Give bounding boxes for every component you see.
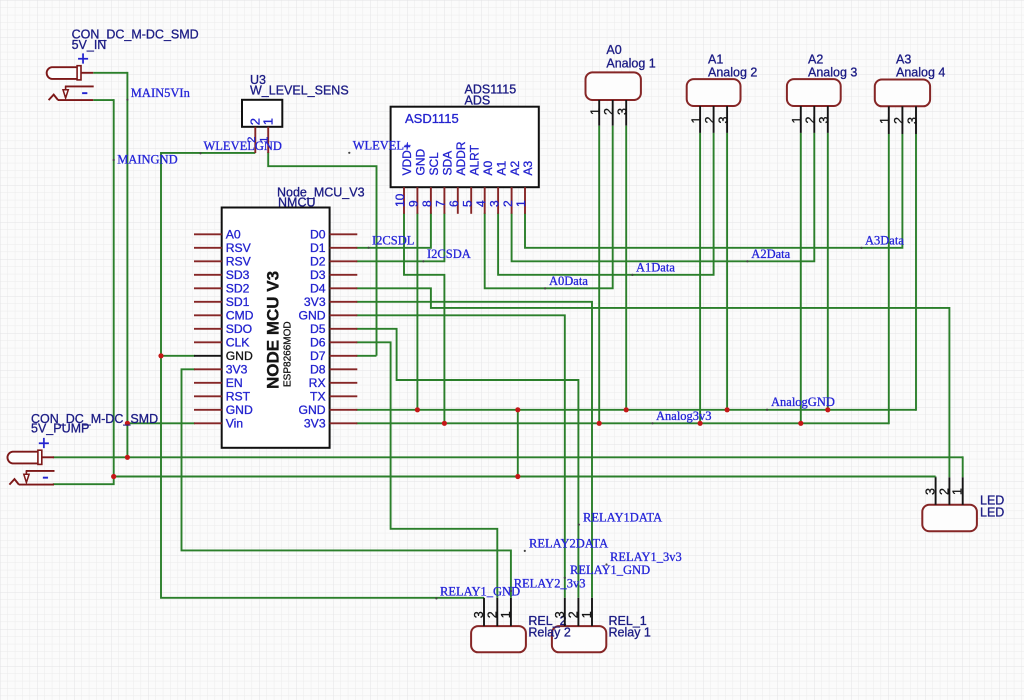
connector LED pin 1 stub (962, 477, 964, 505)
NodeMCU left pin stub GND row14 (194, 409, 222, 411)
svg-text:RSV: RSV (226, 254, 252, 268)
NodeMCU right pin stub D4 row5 (330, 287, 358, 289)
wire AnalogGND to MAINGND link (517, 410, 519, 477)
svg-text:2: 2 (486, 611, 500, 618)
svg-text:A3Data: A3Data (865, 233, 904, 247)
connector J2 5V_PUMP switch arm (26, 470, 55, 472)
net label MAIN5VIn (126, 99, 128, 101)
net label RELAY2DATA (524, 550, 526, 552)
svg-text:RELAY1_GND: RELAY1_GND (570, 563, 650, 577)
svg-text:-: - (81, 82, 88, 104)
wire MAIN5VIn horizontal from 5V_IN + pin (93, 72, 127, 74)
connector LED pin 2 stub (948, 477, 950, 505)
svg-text:SDA: SDA (441, 151, 455, 176)
svg-text:D2: D2 (310, 254, 326, 268)
connector LED pin 3 stub (935, 477, 937, 505)
connector REL_1 pin 3 stub (564, 598, 566, 626)
NodeMCU left pin stub RST row13 (194, 395, 222, 397)
svg-text:D3: D3 (310, 268, 326, 282)
svg-text:MAINGND: MAINGND (117, 153, 177, 167)
wire MAIN5VIn vertical (126, 72, 128, 457)
wire NodeMCU 3V3 to relay1 pin1 RELAY1_3v3 (356, 302, 592, 598)
connector A1 body (687, 79, 741, 106)
svg-text:2: 2 (567, 611, 581, 618)
connector J1 5V_IN barrel (47, 67, 77, 79)
wire MAINGND horizontal from 5V_IN - pin (93, 99, 114, 101)
svg-text:RELAY2DATA: RELAY2DATA (529, 537, 608, 551)
svg-text:GND: GND (299, 403, 326, 417)
wire D7 pin to WLEVEL+ vertical (356, 355, 376, 357)
svg-text:RELAY2_3v3: RELAY2_3v3 (514, 577, 586, 591)
svg-text:1: 1 (499, 611, 513, 618)
svg-text:3: 3 (905, 117, 919, 124)
connector J2 5V_PUMP barrel (7, 452, 37, 464)
connector A1 pin 2 stub (713, 106, 715, 133)
svg-text:I2CSDL: I2CSDL (372, 233, 414, 247)
svg-text:Analog 4: Analog 4 (896, 66, 945, 80)
wire D5 to relay1 pin2 RELAY1DATA (356, 329, 578, 598)
junction GND link top (515, 407, 520, 412)
net label AnalogGND (766, 409, 768, 411)
svg-text:A2Data: A2Data (751, 247, 790, 261)
svg-text:D6: D6 (310, 335, 326, 349)
svg-text:2: 2 (501, 200, 515, 207)
component NMCU Node_MCU_V3 body (222, 208, 330, 448)
net label RELAY1_GND right (564, 577, 566, 579)
svg-text:TX: TX (310, 389, 326, 403)
wire NodeMCU GND pin to WLEVELGND vertical (161, 355, 195, 357)
svg-text:6: 6 (447, 200, 461, 207)
wire 5V_PUMP minus to GND row (53, 477, 114, 485)
svg-text:GND: GND (299, 308, 326, 322)
component ADS1115 body (391, 107, 539, 188)
connector REL_2 body (471, 626, 526, 652)
wire I2CSDL D1 to ADS SCL (356, 213, 431, 248)
NodeMCU left pin stub RSV row3 (194, 260, 222, 262)
svg-text:9: 9 (407, 200, 421, 207)
net label A3Data (860, 247, 862, 249)
svg-text:Relay 1: Relay 1 (609, 626, 651, 640)
svg-text:2: 2 (804, 117, 818, 124)
NodeMCU right pin stub D2 row3 (330, 260, 358, 262)
connector A2 pin 3 stub (827, 106, 829, 133)
wire AnalogGND rise to A3 pin3 (915, 134, 917, 411)
connector J2 5V_PUMP minus pin (19, 484, 54, 486)
svg-text:AnalogGND: AnalogGND (771, 395, 835, 409)
NodeMCU right pin stub GND row7 (330, 314, 358, 316)
svg-text:Vin: Vin (226, 416, 243, 430)
junction A1 GND (725, 407, 730, 412)
NodeMCU right pin stub 3V3 row6 (330, 301, 358, 303)
svg-text:3V3: 3V3 (226, 362, 248, 376)
svg-text:Analog 3: Analog 3 (808, 66, 857, 80)
wire GND row end at LED pin3 (935, 476, 937, 479)
junction A2 GND (825, 407, 830, 412)
net label RELAY1_3v3 (605, 563, 607, 565)
wire A3Data ADS A3 to conn A3 pin2 (525, 134, 902, 248)
svg-text:SD1: SD1 (226, 295, 250, 309)
net label I2CSDA (422, 260, 424, 262)
ADS pin stub 1 (A3) (524, 187, 526, 214)
junction ADS GND / AnalogGND row (415, 407, 420, 412)
NodeMCU right pin stub RX row12 (330, 382, 358, 384)
svg-text:7: 7 (434, 200, 448, 207)
svg-text:8: 8 (420, 200, 434, 207)
connector J1 5V_IN tip bar (77, 66, 81, 80)
svg-text:1: 1 (690, 117, 704, 124)
wire I2CSDA D2 to ADS SDA (356, 213, 444, 261)
component U3 W_LEVEL_SENS body (242, 100, 282, 127)
svg-text:-: - (42, 466, 49, 488)
svg-text:D8: D8 (310, 362, 326, 376)
junction NodeMCU GND pin / WLEVELGND (158, 353, 163, 358)
svg-text:Relay 2: Relay 2 (528, 626, 570, 640)
junction A0 GND (624, 407, 629, 412)
connector REL_2 pin 2 stub (496, 598, 498, 626)
svg-text:I2CSDA: I2CSDA (427, 247, 471, 261)
svg-text:D4: D4 (310, 281, 326, 295)
svg-text:ASD1115: ASD1115 (405, 111, 459, 126)
svg-text:W_LEVEL_SENS: W_LEVEL_SENS (250, 84, 349, 98)
svg-text:Analog 1: Analog 1 (606, 56, 655, 70)
svg-text:A3: A3 (896, 52, 911, 66)
wire MAINGND vertical (113, 99, 115, 476)
connector LED body (922, 505, 977, 531)
ADS pin stub 10 (VDD+) (403, 187, 405, 214)
wire ADS VDD+ pin10 to Analog3v3 row (404, 213, 444, 423)
wire A1 pin3 to AnalogGND row (726, 133, 728, 410)
net label RELAY1_GND left (435, 597, 437, 599)
svg-text:A1: A1 (708, 52, 723, 66)
svg-text:3: 3 (817, 117, 831, 124)
connector J1 5V_IN zigzag (49, 95, 59, 101)
net label MAINGND (113, 159, 115, 161)
connector REL_1 pin 1 stub (591, 598, 593, 626)
NodeMCU left pin stub CMD row7 (194, 314, 222, 316)
wire 5V row drop to LED pin1 (962, 456, 964, 477)
NodeMCU right pin stub D5 row8 (330, 328, 358, 330)
svg-text:GND: GND (414, 149, 428, 176)
junction A2 3v3 (798, 421, 803, 426)
NodeMCU left pin stub Vin row15 (194, 422, 222, 424)
svg-text:RST: RST (226, 389, 251, 403)
NodeMCU left pin stub GND row10 (194, 355, 222, 357)
svg-text:2: 2 (602, 108, 616, 115)
wire 5V row from 5V_PUMP + pin (53, 456, 963, 458)
junction A1 3v3 (698, 421, 703, 426)
svg-text:A1Data: A1Data (636, 261, 675, 275)
connector J2 5V_PUMP arrow (24, 474, 29, 482)
svg-text:1: 1 (878, 117, 892, 124)
NodeMCU left pin stub SD1 row6 (194, 301, 222, 303)
svg-text:ADDR: ADDR (454, 141, 468, 175)
svg-text:Analog3v3: Analog3v3 (656, 409, 712, 423)
NodeMCU right pin stub D0 row1 (330, 233, 358, 235)
connector A2 pin 2 stub (813, 106, 815, 133)
svg-text:A0: A0 (481, 160, 495, 175)
svg-text:RSV: RSV (226, 241, 252, 255)
connector A0 pin 1 stub (598, 100, 600, 126)
ADS pin stub 3 (A1) (497, 187, 499, 214)
svg-text:WLEVEL+: WLEVEL+ (353, 139, 411, 153)
svg-text:SD2: SD2 (226, 281, 250, 295)
svg-text:EN: EN (226, 376, 243, 390)
wire NodeMCU GND to relay1 pin3 RELAY1_GND (356, 315, 565, 598)
svg-text:2: 2 (937, 488, 951, 495)
NodeMCU right pin stub D7 row10 (330, 355, 358, 357)
wire D4 to LED data row (356, 288, 949, 477)
wire A0Data ADS A0 to conn A0 pin2 (485, 126, 613, 289)
svg-text:3: 3 (553, 611, 567, 618)
svg-text:D0: D0 (310, 227, 326, 241)
svg-text:RX: RX (309, 376, 326, 390)
svg-text:RELAY1DATA: RELAY1DATA (583, 510, 662, 524)
connector REL_2 pin 1 stub (510, 598, 512, 626)
net label WLEVEL+ (348, 152, 350, 154)
NodeMCU right pin stub 3V3 row15 (330, 422, 358, 424)
svg-text:2: 2 (892, 117, 906, 124)
wire A2 pin1 to Analog3v3 row (800, 133, 802, 423)
svg-text:D5: D5 (310, 322, 326, 336)
ADS pin stub 7 (SDA) (443, 187, 445, 214)
wire GND distribution row (114, 476, 936, 478)
wire A2 pin3 to AnalogGND row (827, 133, 829, 410)
junction GND row / MAINGND (111, 474, 116, 479)
U3 pin 1 stub (267, 127, 269, 153)
wire A2Data ADS A2 to conn A2 pin2 (512, 133, 815, 261)
svg-text:LED: LED (980, 506, 1004, 520)
svg-text:2: 2 (703, 117, 717, 124)
wire AnalogGND row (356, 409, 916, 411)
NodeMCU left pin stub EN row12 (194, 382, 222, 384)
net label A2Data (746, 260, 748, 262)
NodeMCU left pin stub SD2 row5 (194, 287, 222, 289)
net label RELAY1DATA (578, 524, 580, 526)
svg-text:CMD: CMD (226, 308, 254, 322)
NodeMCU right pin stub GND row14 (330, 409, 358, 411)
svg-text:3: 3 (487, 200, 501, 207)
svg-text:SD3: SD3 (226, 268, 250, 282)
wire WLEVELGND from U3 pin2 down-left and to relay2 pin3 (161, 153, 484, 598)
connector J2 5V_PUMP plus pin (42, 456, 54, 458)
connector REL_1 body (552, 626, 606, 652)
net label RELAY2_3v3 (510, 590, 512, 592)
U3 pin 2 stub (254, 127, 256, 153)
svg-text:3: 3 (616, 108, 630, 115)
svg-text:A1: A1 (494, 160, 508, 175)
connector A2 pin 1 stub (800, 106, 802, 133)
NodeMCU left pin stub RSV row2 (194, 247, 222, 249)
wire Vin row to NodeMCU Vin pin (127, 422, 195, 424)
svg-text:A0: A0 (226, 227, 241, 241)
ADS pin stub 5 (ALRT) (470, 187, 472, 214)
svg-text:A2: A2 (508, 160, 522, 175)
junction 5V row / MAIN5VIn (125, 455, 130, 460)
ADS pin stub 4 (A0) (484, 187, 486, 214)
svg-text:4: 4 (474, 200, 488, 207)
connector REL_1 pin 2 stub (577, 598, 579, 626)
connector J2 5V_PUMP tip bar (38, 450, 42, 464)
connector REL_2 pin 3 stub (483, 598, 485, 626)
svg-text:+: + (77, 49, 89, 71)
junction ADS VDD+ / Analog3v3 row (442, 421, 447, 426)
svg-text:RELAY1_GND: RELAY1_GND (440, 584, 520, 598)
svg-text:5: 5 (460, 200, 474, 207)
ADS pin stub 8 (SCL) (430, 187, 432, 214)
NodeMCU right pin stub D6 row9 (330, 341, 358, 343)
svg-text:+: + (38, 433, 50, 455)
svg-text:SDO: SDO (226, 322, 252, 336)
connector A3 pin 3 stub (915, 106, 917, 134)
svg-text:A0Data: A0Data (549, 274, 588, 288)
NodeMCU right pin stub TX row13 (330, 395, 358, 397)
net label I2CSDL (368, 247, 370, 249)
net label WLEVELGND (199, 152, 201, 154)
NodeMCU left pin stub 3V3 row11 (194, 368, 222, 370)
wire WLEVEL+ from U3 pin1 (268, 152, 376, 356)
svg-text:10: 10 (393, 193, 407, 207)
svg-text:A3: A3 (521, 160, 535, 175)
connector J1 5V_IN arrow (63, 90, 68, 98)
junction GND link bottom (515, 474, 520, 479)
svg-text:CLK: CLK (226, 335, 250, 349)
junction A0 3v3 (597, 421, 602, 426)
wire Analog3v3 row (356, 422, 889, 424)
wire D6 to relay2 pin2 RELAY2DATA (356, 342, 497, 598)
ADS pin stub 2 (A2) (511, 187, 513, 214)
connector A1 pin 3 stub (726, 106, 728, 133)
NodeMCU right pin stub D1 row2 (330, 247, 358, 249)
svg-text:3V3: 3V3 (304, 416, 326, 430)
svg-text:3: 3 (717, 117, 731, 124)
ADS pin stub 9 (GND) (416, 187, 418, 214)
wire A0 pin3 to AnalogGND row (625, 126, 627, 410)
svg-text:GND: GND (226, 349, 253, 363)
connector A3 pin 1 stub (888, 106, 890, 134)
svg-text:WLEVELGND: WLEVELGND (204, 139, 282, 153)
wire NodeMCU left 3V3 to relay2 pin1 RELAY2_3v3 (182, 369, 511, 598)
svg-text:MAIN5VIn: MAIN5VIn (131, 86, 191, 100)
connector J2 5V_PUMP zigzag (9, 479, 19, 485)
net label Analog3v3 (651, 422, 653, 424)
wire A1Data ADS A1 to conn A1 pin2 (498, 133, 713, 275)
svg-text:ADS: ADS (465, 93, 491, 107)
svg-text:3V3: 3V3 (304, 295, 326, 309)
connector J1 5V_IN minus pin (58, 99, 93, 101)
net label A1Data (631, 274, 633, 276)
svg-text:3: 3 (924, 488, 938, 495)
svg-text:1: 1 (790, 117, 804, 124)
net label A0Data (544, 287, 546, 289)
svg-text:ESP8266MOD: ESP8266MOD (282, 321, 293, 387)
wire A0 pin1 to Analog3v3 row (598, 126, 600, 424)
svg-text:GND: GND (226, 403, 253, 417)
connector A1 pin 1 stub (699, 106, 701, 133)
connector A0 pin 2 stub (612, 100, 614, 126)
svg-text:SCL: SCL (427, 152, 441, 176)
svg-text:1: 1 (514, 200, 528, 207)
connector A3 pin 2 stub (901, 106, 903, 134)
svg-text:D1: D1 (310, 241, 326, 255)
NodeMCU right pin stub D3 row4 (330, 274, 358, 276)
svg-text:ALRT: ALRT (467, 144, 481, 175)
wire ADS GND pin9 to AnalogGND row (416, 213, 418, 410)
connector A2 body (787, 79, 841, 106)
junction Vin / MAIN5VIn (125, 421, 130, 426)
connector J1 5V_IN switch arm (65, 85, 94, 87)
svg-text:1: 1 (580, 611, 594, 618)
svg-text:1: 1 (951, 488, 965, 495)
svg-text:1: 1 (589, 108, 603, 115)
NodeMCU left pin stub CLK row9 (194, 341, 222, 343)
NodeMCU left pin stub SD3 row4 (194, 274, 222, 276)
connector A0 body (586, 72, 641, 100)
NodeMCU left pin stub SDO row8 (194, 328, 222, 330)
svg-text:A0: A0 (606, 43, 621, 57)
svg-text:1: 1 (261, 118, 276, 125)
connector A3 body (875, 80, 930, 107)
svg-text:NODE MCU V3: NODE MCU V3 (264, 271, 283, 389)
svg-text:3: 3 (472, 611, 486, 618)
ADS pin stub 6 (ADDR) (457, 187, 459, 214)
wire Analog3v3 rise to A3 pin1 (888, 134, 890, 424)
wire A1 pin1 to Analog3v3 row (699, 133, 701, 423)
NodeMCU right pin stub D8 row11 (330, 368, 358, 370)
svg-text:Analog 2: Analog 2 (708, 66, 757, 80)
NodeMCU left pin stub A0 row1 (194, 233, 222, 235)
svg-text:RELAY1_3v3: RELAY1_3v3 (610, 550, 682, 564)
svg-text:D7: D7 (310, 349, 326, 363)
connector A0 pin 3 stub (625, 100, 627, 126)
svg-text:A2: A2 (808, 52, 823, 66)
connector J1 5V_IN plus pin (81, 72, 93, 74)
